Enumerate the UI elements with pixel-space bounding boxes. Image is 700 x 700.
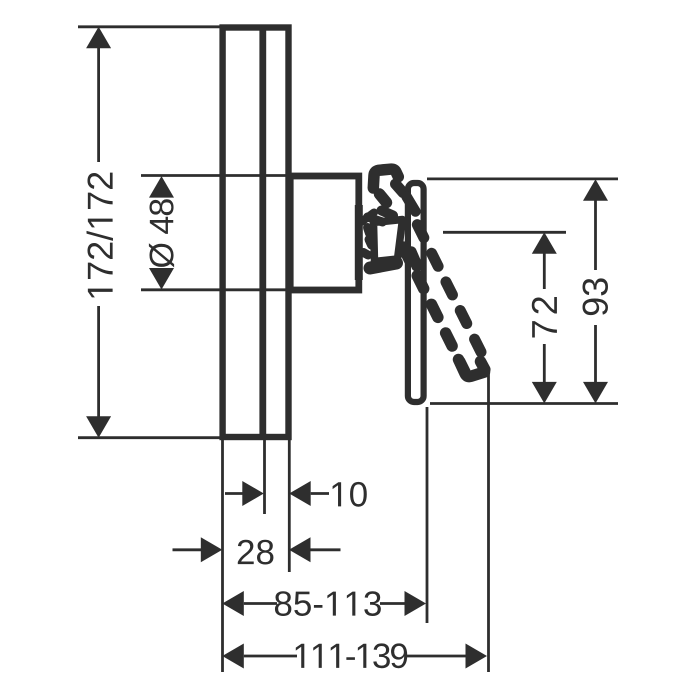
dimension 72 arrow up	[532, 232, 557, 254]
handle hub bottom cap	[370, 263, 397, 268]
dashed hub up position: top edge dash	[368, 217, 383, 222]
dimension 111-139 line right	[406, 655, 467, 658]
dashed handle down position: hub dash right	[411, 252, 417, 266]
label diameter 48	[149, 199, 174, 267]
dashed handle up position: left rail dash 2	[382, 211, 394, 216]
label 10	[333, 482, 367, 507]
label 172/172	[87, 173, 113, 298]
dimension 172/172 arrow up	[86, 27, 111, 49]
dimension 93 arrow up	[583, 179, 608, 201]
valve body (cartridge housing)	[290, 176, 359, 290]
label 28	[238, 540, 274, 565]
dimension 10 line right	[311, 492, 329, 495]
dimension 85-113 line right	[380, 602, 406, 605]
dimension 93 line lower	[594, 325, 597, 383]
label 72	[532, 297, 557, 337]
dimension 93 arrow down	[583, 382, 608, 404]
dimension 28 arrow left-pointing	[289, 537, 311, 562]
dimension 85-113 line left	[244, 602, 277, 605]
extension line below plate left (x=222.5)	[221, 440, 224, 672]
stem dash lower	[369, 240, 372, 246]
extension line below lever tip (x=488.5)	[487, 370, 490, 672]
dimension 28 line left	[173, 548, 202, 551]
extension line pivot (y=232.3)	[443, 231, 566, 234]
dimension 85-113 arrow right-pointing	[405, 591, 427, 616]
stem connector top	[362, 213, 374, 222]
dimension 172/172 line upper	[97, 47, 100, 162]
dimension 111-139 arrow left-pointing	[222, 644, 244, 669]
dimension 72 line upper	[543, 253, 546, 289]
dimension 172/172 line lower	[97, 306, 100, 417]
dimension 28 line right	[311, 548, 341, 551]
dashed handle up position: end cap	[373, 169, 398, 188]
label 111-139	[296, 643, 407, 668]
dimension 10 arrow right-pointing	[242, 481, 263, 506]
dimension 28 arrow right-pointing	[201, 537, 223, 562]
dashed handle down position: end cap	[459, 360, 485, 377]
stem connector bottom	[364, 253, 369, 256]
dimension 10 line left	[225, 492, 243, 495]
extension line bar top (y=178.9)	[427, 177, 618, 180]
dashed handle down position: right rail	[416, 222, 481, 352]
stem dash upper	[368, 228, 370, 234]
dimension 72 line lower	[543, 344, 546, 383]
extension line bottom left (y=437.6)	[78, 436, 220, 439]
dimension diameter 48 arrow down	[149, 268, 174, 290]
dashed handle down position: end hook	[481, 362, 485, 370]
dimension 111-139 line left	[244, 655, 297, 658]
dashed handle up position: right rail dash 2	[407, 197, 416, 212]
dimension 72 arrow down	[532, 382, 557, 404]
label 85-113	[275, 591, 381, 616]
dimension 93 line upper	[594, 200, 597, 270]
handle lever (solid, vertical bar)	[408, 183, 424, 402]
extension line bar bottom (y=403.5)	[430, 402, 618, 405]
extension line body bottom (y=289.8)	[141, 288, 291, 291]
label 93	[583, 278, 608, 315]
wall plate (escutcheon side view)	[223, 28, 289, 438]
dimension 85-113 arrow left-pointing	[222, 591, 244, 616]
handle hub (solid trapezoid)	[374, 220, 403, 262]
extension line below plate divider (x=264.5)	[263, 440, 266, 514]
extension line below plate right (x=289.3)	[288, 440, 291, 572]
extension line body top (y=175.3)	[141, 174, 291, 177]
dimension 10 arrow left-pointing	[289, 481, 311, 506]
dashed handle up position: left rail dash 1	[380, 194, 387, 203]
extension line below bar (x=427)	[426, 407, 429, 623]
dashed handle up position: right rail dash 1	[396, 184, 404, 193]
dimension diameter 48 arrow up	[149, 176, 174, 198]
dashed handle down position: left rail	[403, 247, 465, 372]
extension line top left (y=26.5)	[78, 25, 220, 28]
dimension 111-139 arrow right-pointing	[466, 644, 488, 669]
dimension 172/172 arrow down	[86, 416, 111, 438]
